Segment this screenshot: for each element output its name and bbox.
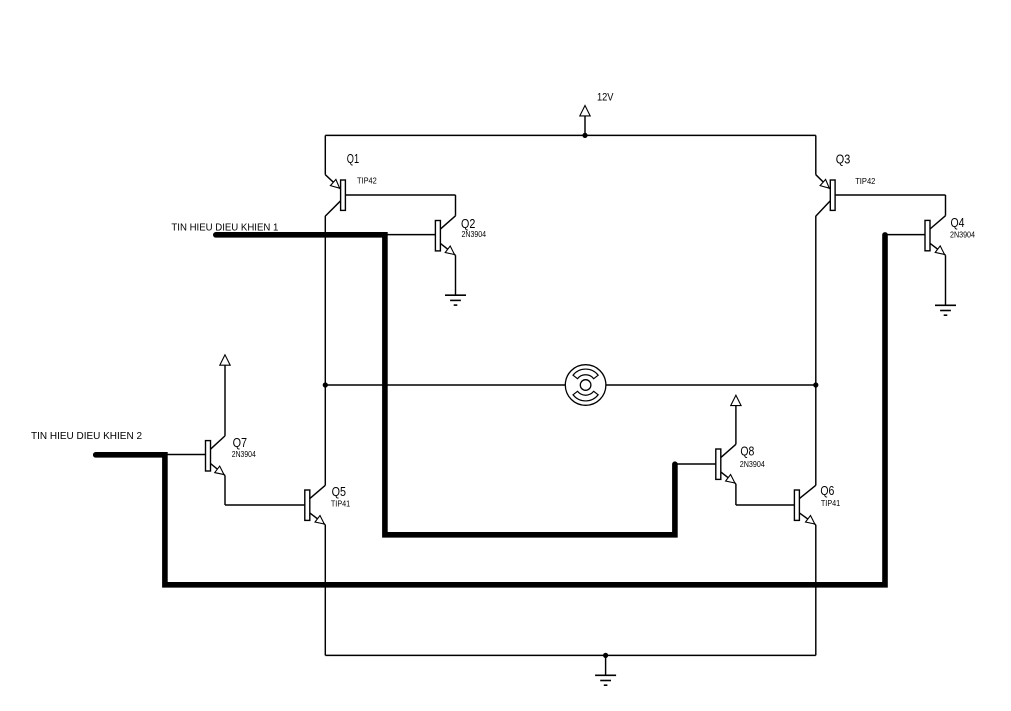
svg-text:TIP42: TIP42 — [855, 177, 875, 186]
svg-text:2N3904: 2N3904 — [950, 230, 976, 239]
svg-text:2N3904: 2N3904 — [740, 460, 766, 469]
svg-text:Q3: Q3 — [836, 151, 851, 166]
svg-text:Q6: Q6 — [820, 483, 834, 498]
svg-text:12V: 12V — [597, 91, 614, 103]
svg-text:TIN HIEU DIEU KHIEN 2: TIN HIEU DIEU KHIEN 2 — [31, 430, 142, 442]
svg-text:TIP41: TIP41 — [331, 499, 350, 508]
svg-text:Q1: Q1 — [347, 151, 359, 166]
svg-text:2N3904: 2N3904 — [462, 230, 487, 239]
svg-text:TIP41: TIP41 — [821, 499, 840, 508]
svg-text:2N3904: 2N3904 — [232, 450, 257, 459]
svg-text:Q4: Q4 — [951, 215, 965, 230]
svg-text:Q2: Q2 — [461, 216, 475, 231]
svg-text:Q5: Q5 — [332, 484, 346, 499]
svg-text:Q8: Q8 — [740, 443, 754, 458]
svg-text:TIN HIEU DIEU KHIEN 1: TIN HIEU DIEU KHIEN 1 — [171, 221, 278, 233]
svg-text:Q7: Q7 — [233, 435, 248, 450]
svg-text:TIP42: TIP42 — [357, 177, 377, 186]
